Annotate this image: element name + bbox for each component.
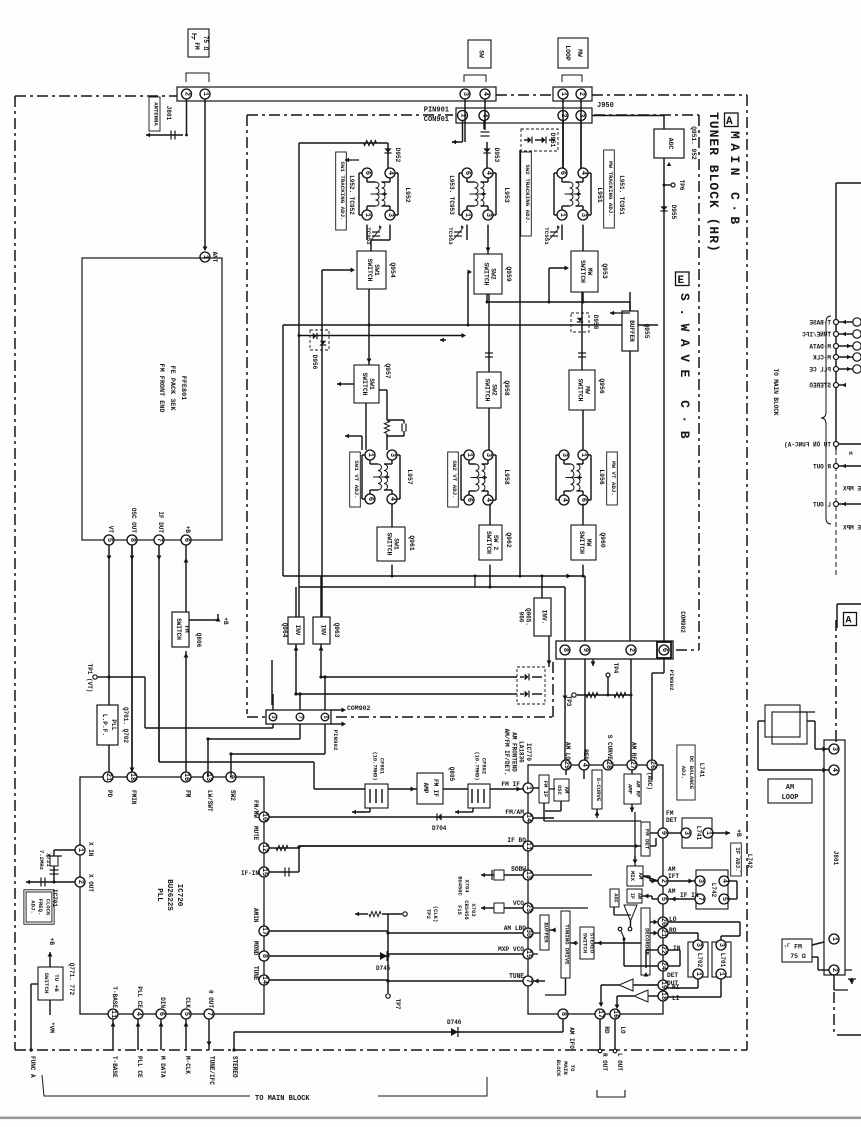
svg-text:R OUT: R OUT bbox=[813, 464, 831, 471]
svg-text:SWITCH: SWITCH bbox=[485, 531, 492, 554]
svg-text:4: 4 bbox=[134, 1012, 142, 1016]
svg-text:PD: PD bbox=[106, 790, 113, 798]
svg-text:1: 1 bbox=[524, 786, 532, 790]
svg-text:ADJ.: ADJ. bbox=[29, 900, 36, 913]
svg-text:FM IF: FM IF bbox=[501, 781, 520, 788]
svg-text:28: 28 bbox=[604, 761, 612, 769]
svg-text:X721: X721 bbox=[45, 853, 52, 867]
svg-text:SW1: SW1 bbox=[373, 264, 380, 276]
svg-text:LW/S̅W̅T: LW/S̅W̅T bbox=[206, 790, 213, 812]
svg-text:Q959: Q959 bbox=[505, 266, 512, 282]
svg-text:L958: L958 bbox=[503, 469, 510, 485]
svg-text:D958: D958 bbox=[592, 315, 599, 330]
svg-text:M DATA: M DATA bbox=[159, 1056, 166, 1078]
svg-text:8: 8 bbox=[559, 1012, 567, 1016]
svg-text:DECORDER: DECORDER bbox=[644, 928, 651, 955]
svg-text:FM: FM bbox=[794, 944, 802, 951]
svg-text:FMIN: FMIN bbox=[130, 790, 137, 805]
svg-text:TP3: TP3 bbox=[565, 696, 572, 707]
svg-text:AM RF: AM RF bbox=[635, 781, 642, 798]
svg-text:I̅F̅ ̅A̅D̅J̅.̅: I̅F̅ ̅A̅D̅J̅.̅ bbox=[734, 847, 741, 874]
svg-text:L953: L953 bbox=[503, 187, 510, 203]
svg-text:7: 7 bbox=[297, 715, 303, 718]
svg-text:IF IN: IF IN bbox=[680, 892, 699, 899]
svg-text:AGC: AGC bbox=[613, 893, 619, 902]
svg-text:COM902: COM902 bbox=[347, 705, 371, 712]
svg-text:SW1: SW1 bbox=[393, 538, 400, 550]
svg-text:FM: FM bbox=[183, 625, 190, 633]
svg-text:7: 7 bbox=[155, 538, 163, 542]
svg-text:FUNC A: FUNC A bbox=[29, 1056, 36, 1078]
svg-text:*VM: *VM bbox=[48, 1022, 55, 1033]
svg-text:ANTENNA: ANTENNA bbox=[153, 102, 160, 126]
svg-text:21: 21 bbox=[659, 929, 667, 937]
svg-text:6: 6 bbox=[463, 171, 471, 175]
svg-text:L952: L952 bbox=[404, 187, 411, 203]
svg-text:MW: MW bbox=[586, 268, 593, 276]
svg-text:T̅U̅N̅E̅/IFC: T̅U̅N̅E̅/IFC bbox=[802, 332, 831, 339]
svg-text:6: 6 bbox=[660, 648, 668, 652]
svg-text:T̅U̅N̅E̅: T̅U̅N̅E̅ bbox=[252, 966, 259, 981]
svg-text:AM IFO: AM IFO bbox=[568, 1027, 575, 1049]
svg-text:2: 2 bbox=[627, 648, 635, 652]
svg-text:L952. TC952: L952. TC952 bbox=[348, 175, 355, 215]
svg-text:SW: SW bbox=[478, 50, 485, 58]
svg-text:Q964: Q964 bbox=[281, 623, 288, 638]
svg-text:5: 5 bbox=[322, 715, 328, 718]
svg-text:TP2: TP2 bbox=[425, 909, 432, 920]
svg-text:AM LO: AM LO bbox=[564, 742, 571, 760]
svg-text:TP4: TP4 bbox=[612, 663, 619, 674]
svg-text:TUNER BLOCK (HR): TUNER BLOCK (HR) bbox=[706, 112, 721, 253]
svg-text:AM: AM bbox=[786, 784, 794, 792]
svg-text:TU O̅N̅ FUNC-A): TU O̅N̅ FUNC-A) bbox=[784, 442, 831, 449]
svg-text:4: 4 bbox=[720, 879, 728, 883]
svg-text:3: 3 bbox=[560, 453, 568, 457]
svg-text:L.P.F.: L.P.F. bbox=[101, 714, 108, 736]
svg-text:R OUT: R OUT bbox=[601, 1053, 608, 1071]
svg-text:TO: TO bbox=[569, 1065, 576, 1072]
svg-text:SW1 TRACKING ADJ.: SW1 TRACKING ADJ. bbox=[339, 161, 346, 220]
svg-text:15: 15 bbox=[524, 950, 532, 958]
svg-text:AM: AM bbox=[563, 787, 570, 794]
svg-text:SWITCH: SWITCH bbox=[175, 618, 182, 640]
svg-text:PLL CE: PLL CE bbox=[136, 986, 143, 1008]
svg-text:LOOP: LOOP bbox=[564, 45, 571, 61]
svg-text:┐Γ: ┐Γ bbox=[783, 943, 790, 949]
svg-text:AGC: AGC bbox=[667, 138, 674, 150]
svg-text:L741: L741 bbox=[698, 763, 705, 778]
svg-text:T̅U̅N̅E̅/IFC: T̅U̅N̅E̅/IFC bbox=[208, 1056, 215, 1085]
svg-text:SW2 TRACKING ADJ.: SW2 TRACKING ADJ. bbox=[524, 164, 531, 223]
svg-text:CLOCK: CLOCK bbox=[45, 899, 52, 916]
svg-text:Q806: Q806 bbox=[195, 633, 202, 648]
svg-text:OSC OUT: OSC OUT bbox=[130, 508, 137, 534]
svg-text:Q962: Q962 bbox=[505, 532, 512, 548]
svg-text:RD: RD bbox=[603, 1026, 610, 1034]
svg-text:T-BASE: T-BASE bbox=[111, 986, 118, 1008]
svg-text:L951: L951 bbox=[596, 187, 603, 203]
svg-text:3: 3 bbox=[270, 715, 276, 718]
svg-text:21: 21 bbox=[104, 773, 112, 781]
svg-text:+B: +B bbox=[735, 829, 742, 837]
svg-text:MW TRACKING ADJ.: MW TRACKING ADJ. bbox=[607, 161, 614, 217]
svg-text:15: 15 bbox=[260, 868, 268, 876]
svg-text:L701: L701 bbox=[719, 953, 726, 968]
svg-text:Q771. 772: Q771. 772 bbox=[68, 963, 75, 996]
svg-text:23: 23 bbox=[524, 904, 532, 912]
svg-text:3: 3 bbox=[388, 453, 396, 457]
svg-text:27: 27 bbox=[628, 761, 636, 769]
svg-text:D704: D704 bbox=[432, 825, 447, 832]
svg-text:4: 4 bbox=[388, 497, 396, 501]
svg-text:17: 17 bbox=[596, 1010, 604, 1018]
svg-text:1: 1 bbox=[201, 92, 209, 96]
svg-text:MW: MW bbox=[585, 539, 592, 547]
svg-text:AM: AM bbox=[636, 893, 642, 899]
svg-text:D955: D955 bbox=[670, 205, 677, 220]
svg-text:BLOCK: BLOCK bbox=[555, 1060, 562, 1077]
svg-text:4: 4 bbox=[580, 763, 588, 767]
svg-text:4: 4 bbox=[481, 92, 489, 96]
svg-text:+B: +B bbox=[184, 526, 191, 534]
svg-text:MXP VCO: MXP VCO bbox=[498, 946, 524, 953]
svg-text:PLL CE: PLL CE bbox=[809, 367, 831, 374]
svg-text:LA1836: LA1836 bbox=[518, 741, 525, 763]
svg-text:4: 4 bbox=[386, 171, 394, 175]
svg-text:SW2 VT ADJ.: SW2 VT ADJ. bbox=[451, 460, 458, 498]
svg-text:1: 1 bbox=[558, 213, 566, 217]
svg-text:11: 11 bbox=[524, 842, 532, 850]
svg-text:30: 30 bbox=[524, 929, 532, 937]
svg-text:VT: VT bbox=[107, 526, 114, 534]
svg-text:10: 10 bbox=[260, 813, 268, 821]
svg-text:6: 6 bbox=[465, 498, 473, 502]
svg-text:D952: D952 bbox=[394, 148, 401, 163]
svg-text:TP7: TP7 bbox=[394, 999, 401, 1010]
svg-text:L702: L702 bbox=[696, 953, 703, 968]
svg-text:FREQ.: FREQ. bbox=[37, 899, 44, 916]
svg-text:75 Ω: 75 Ω bbox=[790, 953, 806, 960]
svg-text:6: 6 bbox=[579, 498, 587, 502]
svg-text:LO: LO bbox=[619, 1026, 626, 1034]
svg-text:PIN902: PIN902 bbox=[332, 730, 339, 751]
svg-text:F15: F15 bbox=[456, 905, 462, 915]
svg-text:AM/FM IF/DET.: AM/FM IF/DET. bbox=[503, 729, 510, 776]
svg-text:SWITCH: SWITCH bbox=[582, 933, 589, 953]
svg-text:7: 7 bbox=[524, 979, 532, 983]
svg-text:FM IF: FM IF bbox=[542, 781, 549, 798]
svg-text:SWITCH: SWITCH bbox=[385, 532, 392, 555]
svg-text:1: 1 bbox=[579, 453, 587, 457]
svg-text:5: 5 bbox=[182, 1012, 190, 1016]
svg-text:SWITCH: SWITCH bbox=[482, 262, 489, 285]
svg-text:SW 2: SW 2 bbox=[492, 535, 499, 551]
svg-text:SWITCH: SWITCH bbox=[483, 378, 490, 401]
svg-text:BU2622S: BU2622S bbox=[165, 879, 173, 911]
svg-text:TP6: TP6 bbox=[678, 180, 685, 191]
svg-text:19: 19 bbox=[659, 981, 667, 989]
svg-text:2: 2 bbox=[183, 92, 191, 96]
svg-text:T-BASE: T-BASE bbox=[111, 1056, 118, 1078]
svg-text:6: 6 bbox=[363, 171, 371, 175]
svg-text:SW1: SW1 bbox=[368, 378, 375, 390]
svg-text:1: 1 bbox=[830, 937, 838, 941]
svg-text:M-CLK: M-CLK bbox=[813, 355, 831, 362]
svg-text:8: 8 bbox=[561, 648, 569, 652]
svg-text:MW: MW bbox=[576, 49, 583, 57]
svg-text:1: 1 bbox=[463, 213, 471, 217]
svg-text:D956: D956 bbox=[311, 355, 318, 370]
svg-text:8: 8 bbox=[128, 538, 136, 542]
svg-text:S.WAVE C·B: S.WAVE C·B bbox=[677, 293, 692, 446]
svg-text:Q965.: Q965. bbox=[525, 608, 532, 626]
svg-text:IF-IN: IF-IN bbox=[241, 870, 259, 877]
svg-text:θ OUT: θ OUT bbox=[207, 990, 214, 1008]
svg-text:X IN: X IN bbox=[87, 842, 94, 857]
svg-text:L OUT: L OUT bbox=[813, 502, 831, 509]
svg-text:TC951: TC951 bbox=[543, 227, 550, 245]
svg-text:M-CLK: M-CLK bbox=[184, 1056, 191, 1074]
svg-text:E MPX: E MPX bbox=[843, 486, 861, 493]
svg-text:Q960: Q960 bbox=[599, 532, 606, 548]
svg-text:CBS456: CBS456 bbox=[463, 900, 469, 919]
svg-text:SWITCH: SWITCH bbox=[576, 378, 583, 401]
svg-text:9: 9 bbox=[581, 648, 589, 652]
svg-text:D746: D746 bbox=[447, 1019, 462, 1026]
svg-text:AM FRONTEND: AM FRONTEND bbox=[510, 732, 517, 772]
svg-text:+B: +B bbox=[222, 617, 229, 625]
svg-text:MAIN: MAIN bbox=[562, 1061, 569, 1074]
svg-text:SWITCH: SWITCH bbox=[366, 258, 373, 281]
svg-text:X OUT: X OUT bbox=[87, 874, 94, 892]
svg-text:5: 5 bbox=[659, 897, 667, 901]
svg-text:75 Ω: 75 Ω bbox=[202, 36, 209, 51]
svg-text:IFT: IFT bbox=[668, 873, 679, 880]
svg-text:ANT: ANT bbox=[211, 252, 218, 263]
svg-text:8: 8 bbox=[260, 954, 268, 958]
svg-text:3: 3 bbox=[484, 453, 492, 457]
svg-text:TO MAIN BLOCK: TO MAIN BLOCK bbox=[255, 1095, 310, 1103]
svg-text:MIX: MIX bbox=[629, 871, 636, 882]
svg-text:22: 22 bbox=[659, 946, 667, 954]
svg-text:18: 18 bbox=[128, 773, 136, 781]
svg-text:(CLK): (CLK) bbox=[432, 906, 439, 923]
svg-text:RI: RI bbox=[672, 984, 680, 991]
svg-text:BUFFER: BUFFER bbox=[543, 922, 550, 943]
svg-text:6: 6 bbox=[157, 1012, 165, 1016]
svg-text:Q958: Q958 bbox=[503, 380, 510, 396]
svg-text:DIN: DIN bbox=[159, 997, 166, 1008]
svg-text:Q957: Q957 bbox=[384, 363, 391, 379]
svg-text:5: 5 bbox=[105, 538, 113, 542]
svg-text:4: 4 bbox=[480, 113, 488, 117]
svg-text:DET: DET bbox=[667, 972, 678, 979]
svg-text:S-CURVE: S-CURVE bbox=[595, 778, 602, 802]
svg-text:Q951. 952: Q951. 952 bbox=[690, 126, 697, 160]
svg-text:PLL: PLL bbox=[155, 888, 163, 902]
svg-text:18: 18 bbox=[659, 992, 667, 1000]
svg-text:L742: L742 bbox=[746, 854, 753, 869]
svg-text:(10.7MHD): (10.7MHD) bbox=[372, 751, 378, 780]
svg-text:1: 1 bbox=[363, 213, 371, 217]
svg-text:T̅U̅N̅E̅: T̅U̅N̅E̅ bbox=[509, 973, 524, 980]
svg-text:MW VT ADJ.: MW VT ADJ. bbox=[610, 461, 617, 496]
svg-text:FM: FM bbox=[193, 42, 200, 50]
svg-text:3: 3 bbox=[694, 943, 702, 947]
svg-text:BU450C: BU450C bbox=[457, 876, 463, 896]
svg-text:2: 2 bbox=[830, 968, 838, 972]
svg-text:FM/AM: FM/AM bbox=[505, 809, 524, 816]
svg-text:3: 3 bbox=[461, 92, 469, 96]
svg-text:1: 1 bbox=[465, 453, 473, 457]
svg-text:Q961: Q961 bbox=[408, 535, 415, 551]
svg-text:J801: J801 bbox=[832, 851, 839, 866]
svg-text:J950: J950 bbox=[597, 102, 614, 110]
svg-text:17: 17 bbox=[260, 927, 268, 935]
svg-text:29: 29 bbox=[562, 761, 570, 769]
svg-text:1: 1 bbox=[76, 848, 84, 852]
svg-text:DC BALANCE: DC BALANCE bbox=[688, 756, 695, 790]
svg-text:IF: IF bbox=[629, 893, 635, 899]
svg-text:CLK: CLK bbox=[184, 997, 191, 1008]
svg-text:2: 2 bbox=[659, 879, 667, 883]
svg-text:ʍ: ʍ bbox=[849, 450, 853, 457]
svg-text:2: 2 bbox=[577, 92, 585, 96]
svg-text:3: 3 bbox=[717, 943, 725, 947]
svg-text:7.2MHz: 7.2MHz bbox=[38, 850, 45, 870]
svg-text:DET: DET bbox=[666, 817, 677, 824]
svg-text:E MPX: E MPX bbox=[843, 525, 861, 532]
svg-text:FM DET: FM DET bbox=[644, 829, 651, 850]
svg-text:12: 12 bbox=[260, 844, 268, 852]
svg-text:AMIN: AMIN bbox=[252, 908, 259, 923]
svg-text:L OUT: L OUT bbox=[616, 1053, 623, 1071]
svg-text:D953: D953 bbox=[493, 148, 500, 163]
svg-text:14: 14 bbox=[260, 976, 268, 984]
svg-text:IC770: IC770 bbox=[525, 743, 532, 761]
svg-text:S̅W̅2: S̅W̅2 bbox=[229, 790, 236, 801]
svg-text:AM RF: AM RF bbox=[630, 742, 637, 760]
svg-text:3: 3 bbox=[579, 213, 587, 217]
svg-text:SWITCH: SWITCH bbox=[43, 973, 50, 994]
svg-text:1: 1 bbox=[366, 453, 374, 457]
svg-text:20: 20 bbox=[659, 918, 667, 926]
svg-text:A: A bbox=[846, 616, 852, 627]
svg-text:X704: X704 bbox=[464, 880, 470, 894]
svg-text:REG: REG bbox=[582, 749, 589, 760]
svg-text:6: 6 bbox=[558, 171, 566, 175]
svg-text:4: 4 bbox=[560, 498, 568, 502]
svg-text:SWITCH: SWITCH bbox=[579, 260, 586, 283]
svg-text:S̅T̅E̅R̅E̅O̅: S̅T̅E̅R̅E̅O̅ bbox=[231, 1056, 238, 1078]
svg-text:M̅O̅N̅D̅: M̅O̅N̅D̅ bbox=[252, 941, 259, 956]
svg-text:AM: AM bbox=[668, 866, 676, 873]
svg-text:7: 7 bbox=[205, 1012, 213, 1016]
svg-text:2: 2 bbox=[76, 880, 84, 884]
svg-text:Q701. Q702: Q701. Q702 bbox=[122, 707, 129, 743]
svg-text:14: 14 bbox=[524, 814, 532, 822]
svg-text:+B: +B bbox=[48, 938, 55, 946]
svg-text:L742: L742 bbox=[710, 883, 717, 898]
svg-text:ADJ.: ADJ. bbox=[680, 766, 687, 779]
svg-text:D951: D951 bbox=[549, 133, 556, 148]
svg-text:FFE801: FFE801 bbox=[179, 376, 187, 400]
svg-text:CON901: CON901 bbox=[424, 116, 449, 124]
svg-text:MW: MW bbox=[584, 386, 591, 394]
svg-text:TU +B: TU +B bbox=[53, 974, 60, 992]
svg-text:4: 4 bbox=[830, 768, 838, 772]
svg-text:IC720: IC720 bbox=[175, 884, 183, 907]
svg-text:Q954: Q954 bbox=[389, 262, 396, 278]
svg-text:4: 4 bbox=[484, 498, 492, 502]
svg-text:PLL: PLL bbox=[110, 719, 117, 730]
svg-text:S̅T̅E̅R̅E̅O̅: S̅T̅E̅R̅E̅O̅ bbox=[809, 383, 831, 390]
svg-text:AMP: AMP bbox=[627, 784, 634, 795]
svg-text:1: 1 bbox=[717, 972, 725, 976]
svg-text:Q955: Q955 bbox=[643, 324, 650, 339]
svg-text:FM: FM bbox=[666, 810, 674, 817]
svg-text:3: 3 bbox=[830, 747, 838, 751]
svg-text:L953. TC953: L953. TC953 bbox=[448, 175, 455, 215]
svg-text:M-DATA: M-DATA bbox=[809, 344, 831, 351]
svg-text:AMP: AMP bbox=[422, 783, 429, 794]
svg-text:PLL CE: PLL CE bbox=[136, 1056, 143, 1078]
svg-text:MAIN C·B: MAIN C·B bbox=[727, 131, 742, 229]
svg-text:F̅M̅: F̅M̅ bbox=[184, 790, 191, 798]
svg-text:L951. TC951: L951. TC951 bbox=[618, 175, 625, 215]
svg-text:(10.7MHD): (10.7MHD) bbox=[474, 751, 480, 780]
svg-text:13: 13 bbox=[524, 871, 532, 879]
svg-text:INV.: INV. bbox=[541, 610, 548, 624]
svg-text:AM: AM bbox=[668, 888, 676, 895]
svg-text:LI: LI bbox=[672, 995, 680, 1002]
svg-text:5: 5 bbox=[720, 897, 728, 901]
svg-text:CF802: CF802 bbox=[481, 758, 487, 774]
svg-text:BUFFER: BUFFER bbox=[628, 320, 635, 342]
svg-text:VCO: VCO bbox=[513, 900, 524, 907]
svg-text:FM IF: FM IF bbox=[432, 779, 439, 797]
svg-text:SWITCH: SWITCH bbox=[361, 372, 368, 395]
svg-text:CF801: CF801 bbox=[379, 758, 385, 774]
svg-text:T-BASE: T-BASE bbox=[809, 320, 831, 327]
svg-text:SW2: SW2 bbox=[491, 384, 498, 396]
svg-text:TUNING DRIVE: TUNING DRIVE bbox=[564, 924, 571, 965]
svg-text:1: 1 bbox=[559, 92, 567, 96]
svg-text:16: 16 bbox=[611, 1010, 619, 1018]
svg-text:24: 24 bbox=[659, 962, 667, 970]
svg-text:3: 3 bbox=[386, 213, 394, 217]
svg-text:TP1 (VT): TP1 (VT) bbox=[86, 664, 93, 693]
svg-text:11: 11 bbox=[109, 1010, 117, 1018]
svg-text:INV: INV bbox=[294, 625, 301, 636]
svg-text:SW1 VT ADJ.: SW1 VT ADJ. bbox=[353, 460, 360, 498]
svg-text:J801: J801 bbox=[165, 106, 172, 121]
svg-text:6: 6 bbox=[182, 538, 190, 542]
svg-text:1: 1 bbox=[704, 831, 712, 835]
svg-text:3: 3 bbox=[484, 213, 492, 217]
svg-text:FM/M̅W̅: FM/M̅W̅ bbox=[252, 800, 259, 818]
svg-text:3: 3 bbox=[682, 831, 690, 835]
svg-text:3: 3 bbox=[696, 879, 704, 883]
svg-text:Q956: Q956 bbox=[598, 378, 605, 394]
svg-text:Q953: Q953 bbox=[601, 263, 608, 279]
svg-text:Q963: Q963 bbox=[333, 623, 340, 638]
svg-text:INV: INV bbox=[320, 625, 327, 636]
svg-text:9: 9 bbox=[659, 831, 667, 835]
svg-text:6: 6 bbox=[366, 497, 374, 501]
svg-text:16: 16 bbox=[182, 773, 190, 781]
